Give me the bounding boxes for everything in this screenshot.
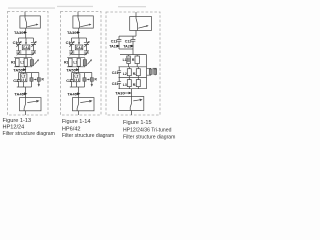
svg-text:Figure 1-13: Figure 1-13 bbox=[3, 118, 32, 124]
svg-text:C31: C31 bbox=[112, 82, 119, 86]
svg-text:Filter structure diagram: Filter structure diagram bbox=[62, 133, 114, 139]
capacitor C11 bbox=[117, 36, 122, 49]
svg-text:TA10: TA10 bbox=[109, 45, 118, 49]
switch blade bbox=[136, 17, 137, 31]
resistor R1 box bbox=[136, 55, 138, 67]
arrester boxes right bbox=[149, 69, 152, 75]
faint scan smudge bbox=[57, 6, 93, 7]
wire bbox=[132, 49, 134, 55]
svg-text:TA30: TA30 bbox=[115, 91, 125, 96]
svg-text:L3: L3 bbox=[123, 83, 127, 87]
svg-text:TA20: TA20 bbox=[123, 45, 132, 49]
top bar bbox=[119, 35, 136, 37]
svg-text:L2: L2 bbox=[123, 72, 127, 76]
filter diagram HP6/42 bbox=[61, 12, 102, 116]
filter diagram HP12/24 bbox=[8, 12, 49, 116]
resistor R2 box bbox=[137, 67, 139, 78]
resistor R3 box bbox=[137, 78, 139, 89]
wire entry bbox=[135, 12, 137, 17]
switch arrow bbox=[138, 26, 147, 28]
faint scan smudge bbox=[118, 6, 146, 7]
inductor L2 box bbox=[128, 67, 130, 78]
inductor L3 box bbox=[128, 78, 130, 89]
switch blade bbox=[130, 97, 131, 111]
rail row1 top bbox=[120, 54, 147, 56]
wire stub bbox=[131, 111, 133, 116]
svg-text:C11: C11 bbox=[111, 40, 117, 44]
faint scan smudge bbox=[8, 7, 55, 8]
svg-text:Filter structure diagram: Filter structure diagram bbox=[3, 131, 55, 137]
svg-text:HP12/24/36 Tri-tuned: HP12/24/36 Tri-tuned bbox=[123, 128, 172, 134]
svg-text:L1: L1 bbox=[123, 58, 127, 62]
svg-text:Figure 1-14: Figure 1-14 bbox=[62, 119, 91, 125]
right rail bbox=[146, 55, 148, 89]
capacitor C12 bbox=[131, 36, 136, 49]
rail row2 top bbox=[119, 66, 147, 68]
switch arrow bbox=[133, 100, 140, 101]
caption figure 1-13 bbox=[3, 118, 176, 141]
capacitor C31 bbox=[117, 78, 121, 89]
rail row3 top bbox=[119, 77, 147, 79]
svg-text:HP12/24: HP12/24 bbox=[3, 125, 25, 131]
merge bar bbox=[119, 48, 133, 50]
rail row3 bottom bbox=[119, 88, 147, 90]
svg-text:Figure 1-15: Figure 1-15 bbox=[123, 120, 152, 126]
wire bbox=[131, 89, 133, 97]
arrester stub right bbox=[147, 68, 156, 75]
wire bbox=[135, 31, 137, 37]
inductor L1 box bbox=[128, 55, 130, 67]
disconnector box top bbox=[130, 17, 152, 31]
svg-text:Filter structure diagram: Filter structure diagram bbox=[123, 135, 175, 141]
svg-text:C12: C12 bbox=[125, 40, 132, 44]
capacitor C21 bbox=[117, 67, 121, 78]
svg-text:C21: C21 bbox=[112, 71, 119, 75]
disconnector box bottom bbox=[119, 97, 144, 111]
svg-text:HP6/42: HP6/42 bbox=[62, 126, 81, 132]
panel border 3 bbox=[106, 12, 160, 115]
